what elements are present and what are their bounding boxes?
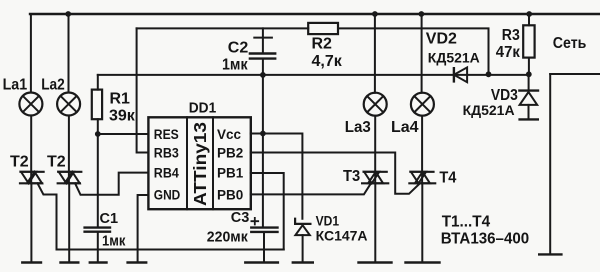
svg-text:Сеть: Сеть bbox=[553, 35, 587, 52]
wire T2 (first) to bottom bbox=[30, 183, 32, 261]
wire La4 branch drop bbox=[421, 14, 423, 93]
wire bottom rail tick under T2 (first) bbox=[22, 261, 41, 263]
wire C1 bottom stub bbox=[97, 233, 99, 262]
capacitor C3 plates bbox=[251, 228, 277, 232]
triac T3 symbol bbox=[362, 172, 388, 184]
wire common ground bus bbox=[57, 249, 284, 251]
wire GND pin down bbox=[138, 195, 149, 261]
svg-text:RB4: RB4 bbox=[154, 166, 179, 181]
wire bottom rail tick under T3 bbox=[359, 261, 392, 263]
capacitor C3 plus sign bbox=[251, 218, 258, 225]
node dot R3/VD3 junction bbox=[526, 71, 532, 77]
wire La1 to T2 (first) bbox=[30, 116, 32, 184]
svg-text:КД521А: КД521А bbox=[428, 50, 480, 66]
wire T4 to bottom bbox=[421, 183, 423, 261]
wire VD3 bottom end tick bbox=[520, 118, 538, 120]
svg-text:PB2: PB2 bbox=[217, 146, 243, 161]
wire R1 bottom stub bbox=[97, 119, 99, 134]
wire gate of T2 (second) to RB4 bbox=[75, 173, 148, 195]
svg-text:VD2: VD2 bbox=[426, 31, 457, 48]
svg-text:R3: R3 bbox=[502, 27, 520, 44]
node dot La2 branch on top rail bbox=[65, 11, 71, 17]
diode VD3 cathode bar bbox=[519, 89, 538, 91]
wire La4 to T4 bbox=[421, 116, 423, 184]
svg-text:R1: R1 bbox=[110, 91, 131, 108]
svg-text:VD1: VD1 bbox=[316, 213, 340, 228]
wire bottom rail tick under T4 bbox=[406, 261, 440, 263]
capacitor C2 top connector bar bbox=[254, 28, 272, 52]
svg-text:La2: La2 bbox=[41, 77, 65, 94]
node dot La4 branch on top rail bbox=[419, 11, 425, 17]
wire PB0 pin to T3 gate bbox=[251, 184, 370, 194]
node dot R1/C1/RES junction bbox=[95, 131, 101, 137]
node dot R3 branch on top rail bbox=[526, 11, 532, 17]
wire RB3 vertical from R2 line bbox=[137, 28, 149, 152]
svg-text:C3: C3 bbox=[231, 210, 250, 226]
resistor R1 body bbox=[92, 90, 102, 120]
svg-text:La1: La1 bbox=[3, 77, 28, 94]
wire La1 branch drop bbox=[30, 14, 32, 92]
wire VD3 bottom stub bbox=[528, 105, 530, 118]
wire R2 right to descend bbox=[338, 28, 489, 74]
svg-text:RB3: RB3 bbox=[154, 146, 179, 161]
wire RES pin wire bbox=[98, 133, 149, 135]
IC DD1 inner dividers bbox=[187, 117, 213, 209]
svg-text:GND: GND bbox=[154, 188, 181, 203]
svg-text:1мк: 1мк bbox=[222, 57, 248, 74]
resistor R2 body bbox=[308, 23, 338, 34]
wire mains right vertical bbox=[549, 74, 551, 253]
diode VD2 triangle bbox=[454, 67, 467, 82]
node dot C2 on plus rail bbox=[260, 72, 266, 78]
wire plus vertical C2 node to C3 bbox=[262, 75, 264, 227]
svg-text:ATTiny13: ATTiny13 bbox=[190, 122, 210, 206]
wire plus rail y75 from R1 top to VD3 node bbox=[98, 74, 529, 76]
wire bottom tick of right mains wire bbox=[539, 253, 561, 255]
svg-text:La3: La3 bbox=[345, 119, 371, 136]
wire bottom rail tick under T2 (second) bbox=[61, 261, 79, 263]
wire bottom rail tick under GND bbox=[128, 261, 147, 263]
svg-text:R2: R2 bbox=[312, 35, 333, 52]
svg-text:Vcc: Vcc bbox=[217, 127, 242, 142]
wire bottom rail tick under VD1 bbox=[293, 261, 313, 263]
node dot Vcc junction bbox=[260, 131, 266, 137]
svg-text:PB1: PB1 bbox=[217, 166, 244, 181]
zener VD1 triangle bbox=[295, 225, 309, 235]
wire T2 (second) to bottom bbox=[68, 183, 70, 261]
capacitor C2 plates bbox=[250, 54, 275, 59]
wire T3 to bottom bbox=[374, 183, 376, 261]
svg-text:T1...T4: T1...T4 bbox=[442, 214, 490, 231]
wire VD1 bottom stub bbox=[302, 235, 304, 261]
wire R3 top stub bbox=[528, 14, 530, 25]
svg-text:39к: 39к bbox=[109, 108, 136, 125]
svg-text:T4: T4 bbox=[439, 170, 456, 187]
svg-text:220мк: 220мк bbox=[207, 229, 249, 245]
wire C2 bottom stub bbox=[262, 60, 264, 75]
svg-text:DD1: DD1 bbox=[189, 100, 216, 117]
lamp La4 bbox=[411, 93, 434, 116]
zener VD1 cathode bar with tail bbox=[295, 219, 310, 224]
diode VD2 cathode bar bbox=[453, 68, 455, 81]
wire La2 branch drop bbox=[68, 14, 70, 92]
lamp La2 bbox=[57, 93, 80, 116]
svg-text:47к: 47к bbox=[496, 44, 521, 61]
svg-text:C1: C1 bbox=[100, 211, 119, 227]
svg-text:T2: T2 bbox=[47, 154, 66, 171]
wire gate of T2 (first) to common bus bbox=[38, 183, 57, 249]
wire mains right terminal bbox=[550, 73, 600, 75]
wire La3 to T3 crossing PB2 line bbox=[374, 116, 376, 184]
svg-text:T2: T2 bbox=[10, 154, 29, 171]
svg-text:PB0: PB0 bbox=[217, 188, 243, 203]
wire PB2 pin to T4 gate bbox=[251, 153, 419, 194]
resistor R3 body bbox=[523, 25, 534, 57]
svg-text:RES: RES bbox=[154, 127, 179, 142]
wire La2 to T2 (second) bbox=[68, 116, 70, 184]
diode VD3 triangle bbox=[520, 92, 538, 105]
node dot rectifier node bbox=[486, 71, 492, 77]
wire VD3 anode stub bbox=[528, 74, 530, 90]
svg-text:КС147А: КС147А bbox=[316, 228, 368, 244]
svg-text:КД521А: КД521А bbox=[463, 102, 515, 118]
wire C1 top stub from node bbox=[97, 134, 99, 226]
svg-text:1мк: 1мк bbox=[102, 233, 126, 249]
wire Vcc pin to VD1 top bbox=[251, 134, 303, 219]
wire PB1 pin down to common bus bbox=[251, 173, 284, 250]
wire R1 top stub bbox=[97, 75, 99, 90]
wire R3 bottom stub to node bbox=[528, 58, 530, 75]
svg-text:T3: T3 bbox=[343, 168, 360, 185]
wire bottom rail tick under C3 bbox=[245, 261, 278, 263]
triac T4 symbol bbox=[409, 172, 435, 184]
wire La3 branch drop bbox=[374, 14, 376, 93]
svg-text:La4: La4 bbox=[391, 119, 419, 136]
triac T2 (first) symbol bbox=[20, 172, 44, 184]
svg-text:ВТА136–400: ВТА136–400 bbox=[441, 230, 529, 247]
wire bottom rail tick under C1 bbox=[90, 261, 107, 263]
lamp La1 bbox=[19, 93, 42, 116]
wire R2 line from corner to R2 bbox=[137, 27, 309, 29]
node dot La3 branch on top rail bbox=[372, 11, 378, 17]
svg-text:C2: C2 bbox=[228, 39, 249, 56]
capacitor C1 plates bbox=[85, 228, 110, 232]
lamp La3 bbox=[364, 93, 387, 116]
svg-text:4,7к: 4,7к bbox=[312, 53, 343, 70]
triac T2 (second) symbol bbox=[58, 172, 82, 184]
wire top mains rail bbox=[30, 13, 600, 15]
IC DD1 box bbox=[148, 117, 250, 209]
wire C3 bottom stub bbox=[263, 233, 265, 261]
